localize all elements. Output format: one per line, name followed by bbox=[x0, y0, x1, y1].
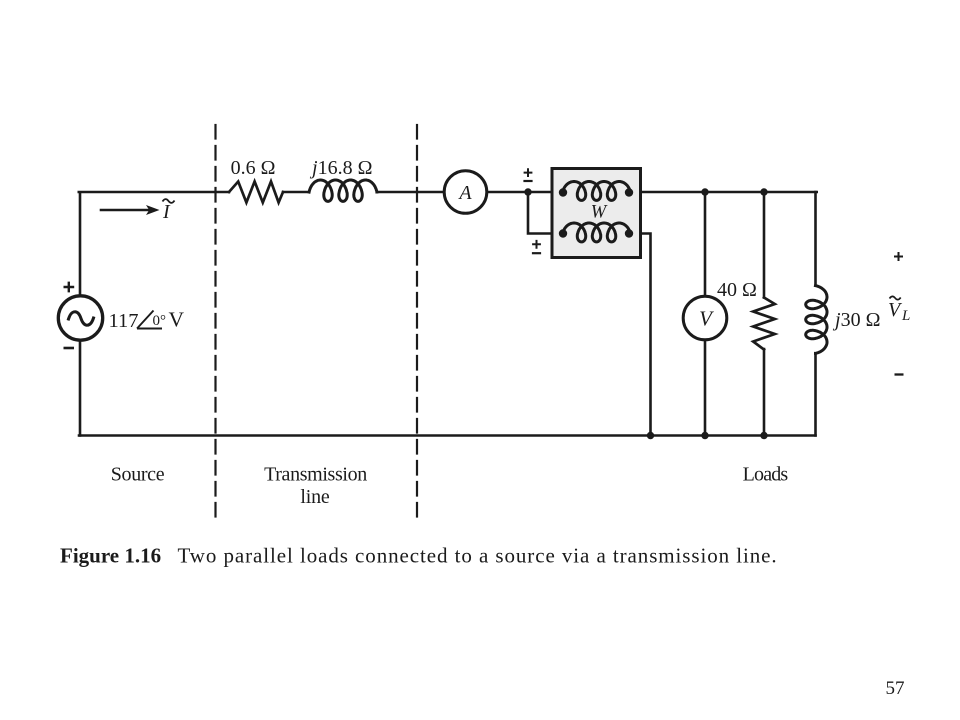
wire: left branch top (source to top-left corner and right to resistor) bbox=[79, 192, 229, 297]
wattmeter W1 box bbox=[552, 169, 641, 258]
svg-text:I: I bbox=[162, 201, 171, 223]
label: source value 117 angle 0 V bbox=[109, 308, 185, 333]
dashed boundary: source / transmission line bbox=[214, 125, 216, 519]
wire: wattmeter potential tap bbox=[528, 192, 563, 234]
ammeter A1 circle bbox=[444, 171, 487, 214]
wattmeter current coil bbox=[563, 182, 631, 201]
label: Transmission line region bbox=[264, 464, 367, 509]
junction node: 40 ohm bottom bbox=[760, 432, 767, 439]
current arrow head bbox=[146, 205, 160, 215]
wire: left branch bottom (source to bottom bus) bbox=[79, 339, 82, 436]
label: wattmeter bottom plus-minus bbox=[532, 240, 541, 253]
wire: wattmeter current coil to loads bbox=[630, 191, 816, 194]
label: load voltage VL tilde bbox=[888, 296, 910, 324]
label: source minus polarity bbox=[64, 347, 75, 350]
svg-text:L: L bbox=[901, 308, 910, 324]
svg-text:0.6 Ω: 0.6 Ω bbox=[231, 157, 276, 179]
wire: 40 ohm branch upper bbox=[763, 192, 766, 298]
resistor 40 ohm zigzag bbox=[753, 298, 775, 350]
junction node: voltmeter bottom bbox=[701, 432, 708, 439]
inductor j16.8 ohm coil bbox=[309, 180, 377, 201]
svg-text:Source: Source bbox=[111, 464, 165, 486]
svg-text:57: 57 bbox=[886, 678, 905, 699]
source V1 sine symbol bbox=[69, 312, 94, 325]
svg-text:V: V bbox=[888, 299, 903, 321]
voltmeter V2 circle bbox=[683, 296, 727, 340]
label: load plus polarity bbox=[894, 252, 903, 261]
wire: inductor to ammeter bbox=[377, 191, 445, 194]
wire: wattmeter potential return bbox=[629, 234, 651, 436]
wire: bottom bus bbox=[79, 434, 816, 437]
junction node: 40 ohm top bbox=[760, 188, 767, 195]
wire: ammeter to wattmeter current coil bbox=[487, 191, 563, 194]
wire: right branch lower (j30 coil to bottom bus) bbox=[814, 353, 817, 435]
svg-text:j30 Ω: j30 Ω bbox=[832, 309, 880, 331]
wire: 40 ohm branch lower bbox=[763, 349, 766, 436]
svg-text:V: V bbox=[169, 308, 185, 332]
junction node: wattmeter tap bbox=[524, 188, 531, 195]
svg-text:117: 117 bbox=[109, 310, 139, 332]
svg-text:Transmission: Transmission bbox=[264, 464, 367, 486]
svg-text:0°: 0° bbox=[153, 313, 167, 329]
junction node: wattmeter return at bottom bus bbox=[647, 432, 654, 439]
svg-text:j16.8 Ω: j16.8 Ω bbox=[309, 157, 372, 179]
label: wattmeter top plus-minus bbox=[523, 168, 532, 181]
current arrow for I bbox=[101, 209, 149, 212]
wire: right branch upper (to j30 coil) bbox=[814, 192, 817, 286]
svg-text:40 Ω: 40 Ω bbox=[717, 279, 757, 301]
wire: voltmeter branch upper bbox=[704, 192, 707, 297]
label: source plus polarity bbox=[64, 282, 75, 293]
label: load minus polarity bbox=[895, 373, 904, 375]
wattmeter current coil terminal dots bbox=[559, 188, 567, 196]
inductor j30 ohm coil bbox=[806, 286, 827, 354]
svg-text:W: W bbox=[591, 203, 608, 223]
wattmeter potential coil bbox=[563, 223, 631, 242]
svg-text:V: V bbox=[699, 307, 714, 331]
wire: resistor to inductor bbox=[283, 191, 309, 194]
svg-text:Loads: Loads bbox=[743, 464, 789, 486]
svg-text:A: A bbox=[457, 182, 472, 204]
wattmeter potential coil terminal dots bbox=[559, 229, 567, 237]
junction node: voltmeter top bbox=[701, 188, 708, 195]
source V1 circle bbox=[58, 296, 102, 340]
caption: Figure 1.16 bbox=[60, 544, 778, 568]
svg-text:line: line bbox=[300, 486, 330, 508]
svg-text:Two parallel loads connected t: Two parallel loads connected to a source… bbox=[178, 544, 778, 568]
wire: voltmeter branch lower bbox=[704, 339, 707, 436]
resistor 0.6 ohm zigzag bbox=[229, 182, 283, 203]
dashed boundary: transmission line / loads bbox=[416, 125, 418, 519]
svg-text:Figure 1.16: Figure 1.16 bbox=[60, 544, 161, 568]
label: current I tilde bbox=[162, 199, 175, 223]
